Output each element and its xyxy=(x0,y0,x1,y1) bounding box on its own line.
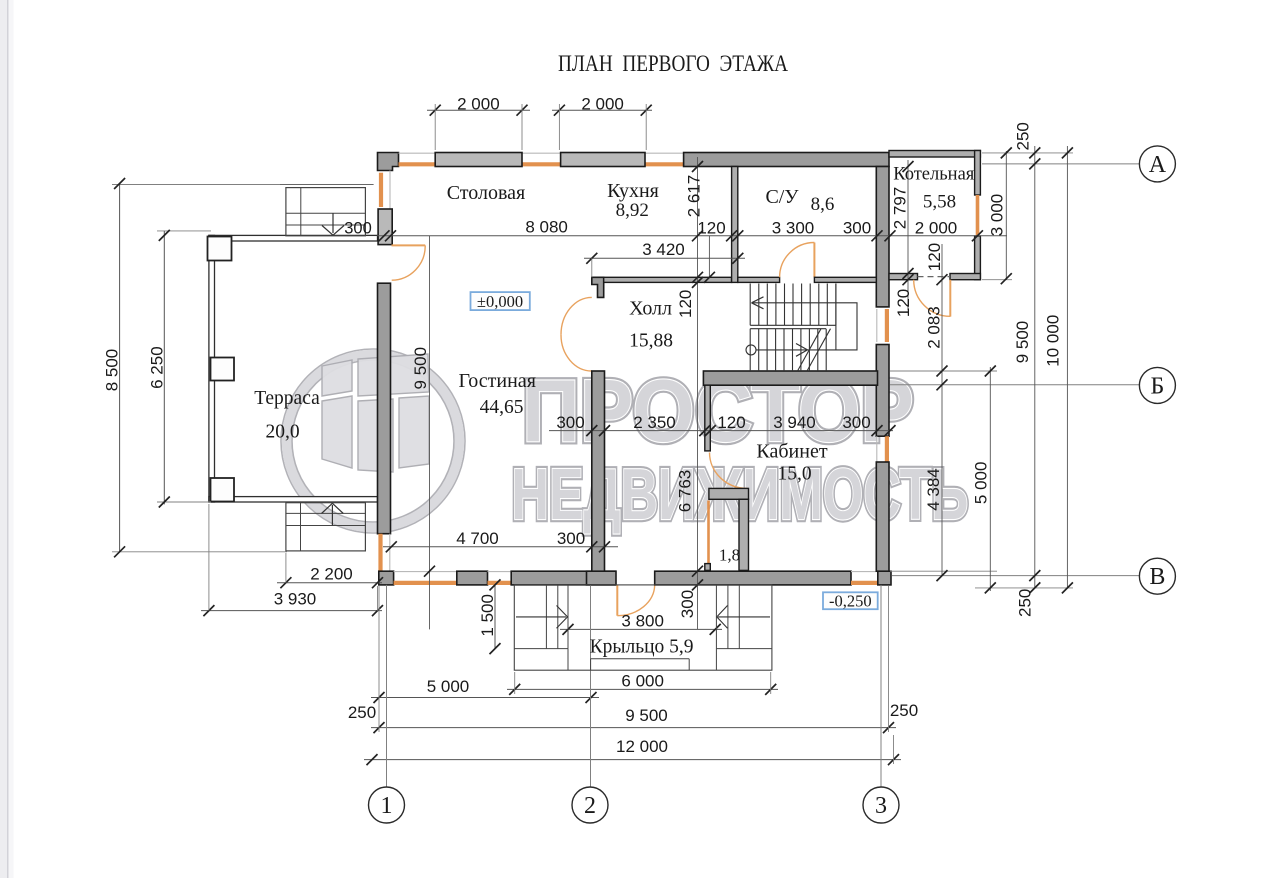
svg-text:3 000: 3 000 xyxy=(988,194,1007,237)
dim row top windows xyxy=(427,109,530,111)
svg-text:120: 120 xyxy=(676,290,695,318)
dim col 3000 xyxy=(1005,151,1007,280)
svg-text:300: 300 xyxy=(557,529,585,548)
watermark word NEDVIZHIMOST xyxy=(512,455,969,535)
right wall window 1 xyxy=(876,309,878,342)
svg-text:Крыльцо 5,9: Крыльцо 5,9 xyxy=(590,637,694,658)
watermark word PROSTOR xyxy=(522,361,914,460)
svg-text:А: А xyxy=(1149,152,1167,178)
porch outline and steps xyxy=(514,585,772,670)
svg-text:-0,250: -0,250 xyxy=(829,591,872,610)
left wall upper orange strip xyxy=(379,173,383,207)
ext line left 6250 top xyxy=(157,230,211,232)
svg-text:3 940: 3 940 xyxy=(773,413,816,432)
left wall lower window orange xyxy=(378,534,382,572)
dim row 9500 xyxy=(371,727,896,729)
svg-text:Кабинет: Кабинет xyxy=(756,441,827,463)
staircase treads xyxy=(749,284,751,326)
svg-text:1,8: 1,8 xyxy=(719,546,740,565)
dim col 120 top xyxy=(708,236,710,277)
axis line 2 xyxy=(590,585,592,787)
dim row 6000 xyxy=(507,688,778,690)
svg-text:6 763: 6 763 xyxy=(676,470,695,513)
right wall lower part xyxy=(876,462,889,571)
svg-text:15,88: 15,88 xyxy=(629,331,673,352)
kotelnaya door D3 xyxy=(949,280,951,317)
svg-text:3 300: 3 300 xyxy=(772,219,815,238)
staircase arrow up (left) xyxy=(752,297,764,303)
svg-text:120: 120 xyxy=(697,219,725,238)
svg-text:4 700: 4 700 xyxy=(456,529,499,548)
living room wall lower xyxy=(592,371,605,571)
svg-text:2 200: 2 200 xyxy=(310,565,353,584)
dim row mid (2350/3940) xyxy=(549,430,893,432)
svg-text:2 083: 2 083 xyxy=(924,306,943,349)
dim col 2797 xyxy=(907,160,909,310)
svg-text:Гостиная: Гостиная xyxy=(458,370,535,392)
svg-text:2: 2 xyxy=(584,793,596,819)
terrace bottom steps xyxy=(286,503,366,551)
svg-text:9 500: 9 500 xyxy=(625,706,668,725)
dim col 9500 (living) xyxy=(429,236,431,629)
terrace pillar top xyxy=(208,237,232,261)
dim row 12000 xyxy=(364,759,901,761)
kabinet door D6 xyxy=(710,453,748,489)
closet top wall xyxy=(709,488,749,499)
wc bottom wall right segment xyxy=(814,277,876,282)
axis line V(bottom) xyxy=(892,575,1139,577)
svg-text:Б: Б xyxy=(1151,373,1165,399)
dim row 5000 xyxy=(371,697,599,699)
svg-text:120: 120 xyxy=(894,289,913,317)
ext line kotelnaya bottom xyxy=(982,279,1012,281)
svg-text:10 000: 10 000 xyxy=(1044,315,1063,367)
kotelnaya door opening dashes xyxy=(918,276,951,278)
right wall middle part xyxy=(876,345,889,437)
window W2 top wall xyxy=(561,153,645,167)
bottom wall T footing xyxy=(587,571,617,585)
dim row 8080 xyxy=(377,235,1007,237)
svg-text:2 000: 2 000 xyxy=(457,95,500,114)
svg-text:300: 300 xyxy=(344,220,372,238)
dim col 2083/4384 xyxy=(941,244,943,576)
svg-text:3 800: 3 800 xyxy=(621,611,664,630)
top wall window sill lines xyxy=(399,152,436,154)
svg-text:20,0: 20,0 xyxy=(265,421,299,442)
svg-text:ПЛАН ПЕРВОГО ЭТАЖА: ПЛАН ПЕРВОГО ЭТАЖА xyxy=(558,51,788,76)
svg-text:С/У: С/У xyxy=(765,186,799,208)
axis line 3 xyxy=(880,585,882,787)
wc left wall xyxy=(732,167,738,283)
svg-text:8,6: 8,6 xyxy=(811,194,835,215)
kotelnaya right wall lower xyxy=(975,236,981,280)
closet door stub xyxy=(705,564,711,571)
axis circle 3 xyxy=(863,787,899,823)
terrace left wall xyxy=(209,235,215,502)
right wall window 2 (kabinet) xyxy=(876,436,878,461)
watermark logo ring xyxy=(281,349,465,533)
svg-text:Холл: Холл xyxy=(629,297,672,319)
bottom wall window 2 xyxy=(488,571,512,573)
svg-text:120: 120 xyxy=(717,413,745,432)
kabinet top wall xyxy=(703,371,877,385)
ext line left 6250 bottom xyxy=(157,501,211,503)
svg-text:120: 120 xyxy=(925,243,944,271)
ext line left top xyxy=(112,184,280,186)
left page-edge strip xyxy=(0,0,7,878)
svg-text:8 500: 8 500 xyxy=(103,349,122,392)
ext line left bottom xyxy=(112,551,287,553)
terrace top steps xyxy=(279,184,373,186)
svg-text:250: 250 xyxy=(890,701,918,720)
top-left corner block xyxy=(378,153,399,171)
ext line bottom right xyxy=(975,587,1073,589)
svg-text:300: 300 xyxy=(842,413,870,432)
svg-text:8,92: 8,92 xyxy=(616,200,649,221)
door D1 left wall (terrace entry) xyxy=(392,244,426,246)
svg-text:250: 250 xyxy=(1016,589,1035,617)
svg-text:Терраса: Терраса xyxy=(254,388,320,409)
top wall solid right part xyxy=(684,153,889,167)
svg-text:1 500: 1 500 xyxy=(478,594,497,637)
axis circle 2 xyxy=(572,787,608,823)
dim col interior (2617/6763) xyxy=(697,157,699,629)
axis line A xyxy=(982,163,1139,165)
terrace bottom wall xyxy=(209,497,378,502)
top wall orange strips xyxy=(399,162,436,166)
svg-text:Столовая: Столовая xyxy=(447,182,526,204)
hall top thin wall xyxy=(604,277,732,282)
svg-text:6 250: 6 250 xyxy=(147,346,166,389)
dim row 3930 xyxy=(201,610,382,612)
dim col 1500 xyxy=(494,585,496,649)
svg-text:250: 250 xyxy=(1014,122,1033,150)
svg-text:250: 250 xyxy=(348,703,376,722)
kotelnaya bottom wall right xyxy=(950,274,980,280)
dim row 3800 xyxy=(560,628,722,630)
bottom wall right of entry xyxy=(655,571,851,585)
axis circle B xyxy=(1139,367,1175,403)
kotelnaya bottom wall left xyxy=(889,274,918,280)
closet right wall xyxy=(739,499,749,570)
window W1 top wall xyxy=(435,153,522,167)
svg-text:5 000: 5 000 xyxy=(427,677,470,696)
wc bottom wall left segment xyxy=(738,277,780,282)
svg-text:12 000: 12 000 xyxy=(616,737,668,756)
kotelnaya window orange xyxy=(976,195,980,236)
svg-text:2 000: 2 000 xyxy=(915,219,958,238)
svg-text:2 350: 2 350 xyxy=(633,413,676,432)
right wall top part xyxy=(876,167,889,307)
kotelnaya right wall upper xyxy=(975,151,981,196)
ext line stairs wall right xyxy=(890,370,997,372)
svg-text:2 797: 2 797 xyxy=(891,187,910,230)
terrace pillar bottom xyxy=(211,478,235,502)
svg-text:44,65: 44,65 xyxy=(480,397,524,418)
axis circle A xyxy=(1139,146,1175,182)
svg-text:300: 300 xyxy=(843,219,871,238)
svg-text:3: 3 xyxy=(875,793,887,819)
staircase break line xyxy=(798,329,822,371)
dim col 8500 xyxy=(119,184,121,552)
porch arrow left xyxy=(516,616,566,618)
french doors D5 (living room) xyxy=(561,297,592,334)
wc door D4 xyxy=(813,243,815,278)
window W3 left wall xyxy=(378,209,392,245)
svg-text:4 384: 4 384 xyxy=(924,468,943,511)
svg-text:2 617: 2 617 xyxy=(685,175,704,218)
svg-text:3 930: 3 930 xyxy=(274,590,317,609)
svg-text:2 000: 2 000 xyxy=(581,95,624,114)
left wall main xyxy=(378,283,391,534)
svg-text:300: 300 xyxy=(678,590,697,618)
closet doorway orange xyxy=(707,501,710,564)
svg-text:1: 1 xyxy=(381,793,393,819)
svg-text:5,58: 5,58 xyxy=(923,192,956,213)
axis line B(mid) xyxy=(890,384,1139,386)
svg-text:±0,000: ±0,000 xyxy=(477,292,523,311)
kabinet left wall xyxy=(705,385,711,451)
bottom wall pier xyxy=(457,571,488,585)
axis line 1 xyxy=(386,585,388,787)
terrace pillar middle xyxy=(211,358,235,381)
svg-text:В: В xyxy=(1149,564,1165,590)
bottom-right corner block xyxy=(878,571,891,585)
dim row 4700 xyxy=(383,546,618,548)
terrace top wall xyxy=(209,235,378,241)
bottom-left corner block xyxy=(379,571,394,585)
entrance door D2 xyxy=(616,585,618,616)
dim col 5000 right xyxy=(989,367,991,591)
level mark +0.000 xyxy=(471,292,530,310)
bottom wall window 1 xyxy=(394,571,457,573)
svg-text:15,0: 15,0 xyxy=(777,464,811,485)
axis circle V xyxy=(1139,558,1175,594)
kotelnaya top wall xyxy=(889,151,980,158)
hall top-left corner block xyxy=(592,277,604,297)
dim col 10000 xyxy=(1066,146,1068,588)
bottom wall left of entry xyxy=(511,571,615,585)
svg-text:Котельная: Котельная xyxy=(893,164,975,184)
bottom wall window 3 xyxy=(851,571,878,573)
dim col 9500 right xyxy=(1034,146,1036,588)
staircase arrow (lower flight) xyxy=(796,344,808,350)
porch arrow right xyxy=(718,616,770,618)
dim row 3420 xyxy=(584,257,745,259)
svg-text:5 000: 5 000 xyxy=(971,462,990,505)
staircase walk line xyxy=(752,303,857,350)
left wall upper window sill xyxy=(389,171,391,210)
level mark -0.250 xyxy=(823,592,878,609)
axis circle 1 xyxy=(369,787,405,823)
svg-text:8 080: 8 080 xyxy=(525,218,568,237)
watermark logo P-mark xyxy=(322,354,429,472)
dim col 6250 xyxy=(163,231,165,505)
ext line wall bottom right xyxy=(890,570,997,572)
svg-text:6 000: 6 000 xyxy=(621,672,664,691)
dim row 2200 xyxy=(277,582,382,584)
svg-text:9 500: 9 500 xyxy=(1013,321,1032,364)
svg-text:300: 300 xyxy=(556,413,584,432)
svg-text:3 420: 3 420 xyxy=(642,240,685,259)
svg-text:9 500: 9 500 xyxy=(411,347,430,390)
ext line top right xyxy=(982,152,1073,154)
svg-text:Кухня: Кухня xyxy=(607,180,659,202)
